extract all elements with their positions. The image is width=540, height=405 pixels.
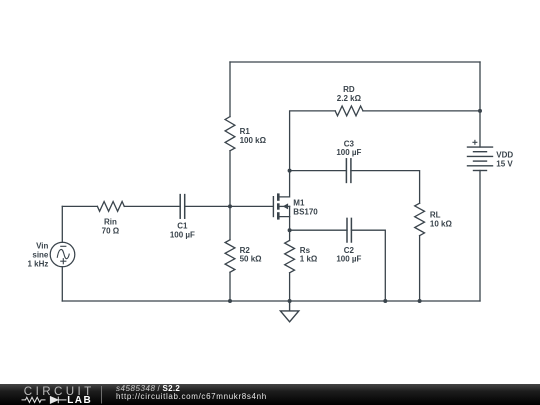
ground symbol: [280, 301, 298, 322]
svg-text:1 kΩ: 1 kΩ: [300, 255, 318, 264]
node R2 bottom junction: [228, 299, 232, 303]
wire battery top lead: [479, 62, 481, 147]
svg-text:2.2 kΩ: 2.2 kΩ: [337, 94, 362, 103]
wire R1 to top rail: [229, 62, 231, 117]
svg-text:R2: R2: [240, 246, 251, 255]
wire Vin to Rin: [62, 205, 97, 207]
svg-text:10 kΩ: 10 kΩ: [430, 219, 453, 228]
label Rs 1 kOhm: [300, 246, 318, 264]
wire C2 right to bottom rail: [351, 230, 385, 301]
wire RD left lead: [290, 111, 336, 171]
capacitor C1: [180, 195, 185, 219]
svg-text:100 µF: 100 µF: [336, 148, 361, 157]
wire battery bottom lead: [479, 171, 481, 302]
label Rin 70 Ohm: [102, 217, 120, 235]
wire gate node to M1 gate: [230, 205, 273, 207]
wire Rs top lead: [289, 230, 291, 240]
svg-text:Vin: Vin: [36, 242, 48, 251]
wire R1 top lead: [229, 151, 231, 207]
capacitor C2: [347, 218, 351, 242]
wire left vertical bottom: [61, 267, 63, 301]
wire left vertical top (Vin to input net): [61, 206, 63, 242]
resistor R2: [225, 240, 235, 272]
transistor M1 drain lead: [280, 171, 290, 197]
label RD 2.2 kOhm: [337, 85, 362, 103]
node Rs bottom junction: [288, 299, 292, 303]
battery VDD plates: [468, 147, 493, 170]
transistor M1 channel segments: [277, 193, 280, 219]
svg-text:VDD: VDD: [496, 151, 513, 160]
svg-text:RD: RD: [343, 85, 355, 94]
label RL 10 kOhm: [430, 210, 453, 228]
svg-text:BS170: BS170: [293, 207, 318, 216]
wire RD right lead: [363, 110, 480, 112]
label VDD 15 V: [496, 151, 513, 169]
svg-text:http://circuitlab.com/c67mnukr: http://circuitlab.com/c67mnukr8s4nh: [116, 392, 267, 401]
wire top rail: [230, 61, 480, 63]
wire Rs to bottom rail: [289, 273, 291, 301]
footer bar: [0, 384, 540, 405]
node C2 bottom junction: [383, 299, 387, 303]
source V1 Vin sine: [50, 242, 75, 267]
svg-text:1 kHz: 1 kHz: [27, 259, 48, 268]
svg-text:100 kΩ: 100 kΩ: [240, 136, 267, 145]
footer url: [116, 392, 267, 401]
svg-text:sine: sine: [32, 251, 49, 260]
wire C3 to RL top: [351, 171, 420, 204]
transistor M1 gate bar: [272, 196, 274, 217]
label R2 50 kOhm: [240, 246, 263, 264]
capacitor C3: [346, 159, 351, 183]
svg-text:Rs: Rs: [300, 246, 311, 255]
wire RL to bottom rail: [419, 236, 421, 301]
logo LAB text: [67, 395, 92, 405]
resistor RL: [415, 203, 425, 235]
node gate junction: [228, 204, 232, 208]
resistor RD: [335, 106, 363, 116]
svg-text:C3: C3: [344, 139, 355, 148]
resistor Rin: [97, 202, 124, 212]
node source junction: [288, 228, 292, 232]
transistor M1 body lead with arrow: [280, 204, 290, 209]
wire Rin to C1: [124, 205, 180, 207]
logo CIRCUIT text: [24, 385, 95, 398]
wire source node to C2: [290, 229, 347, 231]
label C2 100 uF: [336, 246, 361, 264]
wire R2 top lead: [229, 206, 231, 239]
logo resistor-diode doodle: [22, 397, 67, 404]
resistor R1: [225, 117, 235, 151]
svg-text:M1: M1: [293, 198, 305, 207]
svg-text:R1: R1: [240, 127, 251, 136]
node drain junction: [288, 169, 292, 173]
battery plus sign: [472, 140, 477, 145]
wire C1 to gate node: [185, 205, 230, 207]
svg-text:LAB: LAB: [67, 395, 92, 405]
footer separator line: [101, 386, 103, 404]
wire M1 source to source node: [289, 217, 291, 231]
svg-text:C1: C1: [177, 222, 188, 231]
wire R2 to bottom rail: [229, 272, 231, 301]
label R1 100 kOhm: [240, 127, 267, 145]
svg-text:50 kΩ: 50 kΩ: [240, 255, 263, 264]
node RL bottom junction: [418, 299, 422, 303]
svg-text:100 µF: 100 µF: [336, 255, 361, 264]
transistor M1 source lead: [280, 206, 290, 216]
resistor Rs: [285, 240, 295, 272]
svg-text:70 Ω: 70 Ω: [102, 226, 120, 235]
wire drain node to C3: [290, 170, 347, 172]
wire bottom rail: [62, 300, 480, 302]
label Vin sine 1 kHz: [27, 242, 48, 269]
svg-text:100 µF: 100 µF: [170, 231, 195, 240]
svg-text:C2: C2: [344, 246, 355, 255]
svg-text:15 V: 15 V: [496, 160, 513, 169]
svg-text:RL: RL: [430, 210, 441, 219]
label C3 100 uF: [336, 139, 361, 157]
svg-text:Rin: Rin: [104, 217, 117, 226]
label M1 BS170: [293, 198, 318, 216]
footer title s4585348 / S2.2: [116, 384, 180, 393]
node RD right junction: [478, 109, 482, 113]
label C1 100 uF: [170, 222, 195, 240]
